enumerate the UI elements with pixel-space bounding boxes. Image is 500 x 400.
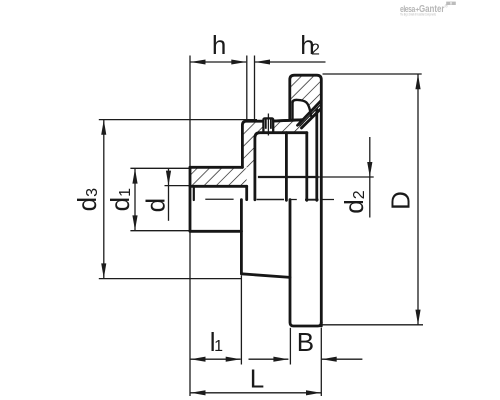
svg-text:d2: d2 (339, 190, 369, 213)
svg-text:h: h (212, 30, 226, 60)
svg-text:d: d (141, 198, 171, 212)
svg-text:B: B (297, 327, 314, 357)
svg-text:The Big & Small of Industrial: The Big & Small of Industrial Components (400, 11, 436, 16)
svg-text:D: D (386, 191, 416, 210)
svg-text:L: L (250, 363, 264, 393)
svg-text:1: 1 (214, 338, 223, 355)
svg-text:d1: d1 (105, 188, 135, 211)
svg-text:2: 2 (311, 42, 320, 59)
svg-text:d3: d3 (72, 188, 102, 211)
